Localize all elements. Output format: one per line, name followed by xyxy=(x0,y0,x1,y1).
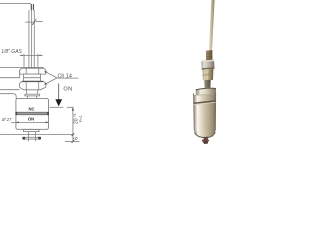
photo cylinder right rim xyxy=(214,93,216,131)
photo cable xyxy=(209,0,215,52)
stem neck between nut and float xyxy=(25,90,27,94)
ON direction arrowhead xyxy=(55,99,62,106)
retaining clip xyxy=(23,137,41,139)
thread dim arrow right xyxy=(38,55,41,57)
float bottom boss xyxy=(24,129,40,131)
nut bottom extension line xyxy=(0,89,20,91)
hex nut top: dark top edge xyxy=(22,67,43,69)
svg-text:1/8" GAS: 1/8" GAS xyxy=(1,49,22,55)
hex nut bottom: dark top edge xyxy=(22,81,43,83)
diameter dim arrow left xyxy=(16,122,19,124)
photo cylinder left rim xyxy=(193,93,196,131)
svg-text:Ø 27: Ø 27 xyxy=(1,117,12,122)
photo lower hex xyxy=(202,69,213,81)
tank wall end face xyxy=(19,70,21,78)
washer seam xyxy=(24,77,41,79)
vertical dimension line xyxy=(72,107,74,141)
cable wires at top xyxy=(31,4,33,10)
hex nut bottom: body xyxy=(20,81,46,90)
svg-text:Ch 14: Ch 14 xyxy=(58,73,72,79)
bottom extension line xyxy=(65,141,80,143)
baseline reference line xyxy=(0,134,73,136)
bottom stem xyxy=(28,132,30,142)
photo float top cap xyxy=(196,88,216,95)
photo cylinder seam xyxy=(194,101,216,103)
hex nut top: body xyxy=(20,68,46,74)
thread extension line right xyxy=(37,54,39,67)
svg-text:ON: ON xyxy=(63,87,72,93)
photo hex nut xyxy=(201,60,214,70)
Ch 14 underline xyxy=(57,77,79,79)
leader arrow tips xyxy=(44,71,47,73)
thread dim arrow left xyxy=(21,55,24,57)
hex nut top: facet lines xyxy=(25,69,27,75)
vertical dim tick bottom xyxy=(72,140,75,143)
photo threaded stud xyxy=(206,50,213,61)
tank wall line lower xyxy=(0,77,20,79)
diameter dim arrow right xyxy=(46,122,49,124)
svg-text:6: 6 xyxy=(74,137,80,140)
svg-text:NC: NC xyxy=(28,106,34,111)
switching level line (chain line) xyxy=(50,106,64,108)
ON direction arrow shaft xyxy=(58,83,60,100)
neck flange xyxy=(25,94,40,96)
photo bottom stem and clip xyxy=(204,137,208,144)
photo float cylinder xyxy=(193,94,215,131)
photo float bottom xyxy=(194,130,215,137)
hex nut bottom: facet lines xyxy=(25,82,27,90)
thread dimension line 1/8 GAS xyxy=(20,54,43,56)
photo lower hex shadow line xyxy=(202,73,213,76)
vertical dim top arrow xyxy=(72,107,74,110)
tank wall line upper xyxy=(0,67,22,69)
top leader line xyxy=(0,3,31,5)
float raised-position phantom line xyxy=(0,94,16,99)
cable break mark xyxy=(25,21,33,23)
Ch 14 leader lines xyxy=(45,71,57,78)
cable sheath xyxy=(29,10,34,67)
band end caps xyxy=(15,112,17,115)
float switching band (gray) xyxy=(16,112,48,115)
photo neck xyxy=(204,80,211,88)
neck lower stub xyxy=(27,96,29,99)
svg-text:P≈1: P≈1 xyxy=(79,115,83,122)
float body xyxy=(16,98,49,129)
diameter dim line xyxy=(11,121,49,123)
thread extension line left xyxy=(23,54,25,67)
svg-text:ON: ON xyxy=(28,117,34,122)
vertical dim tick mid xyxy=(72,133,75,136)
locking washer block xyxy=(24,74,41,81)
